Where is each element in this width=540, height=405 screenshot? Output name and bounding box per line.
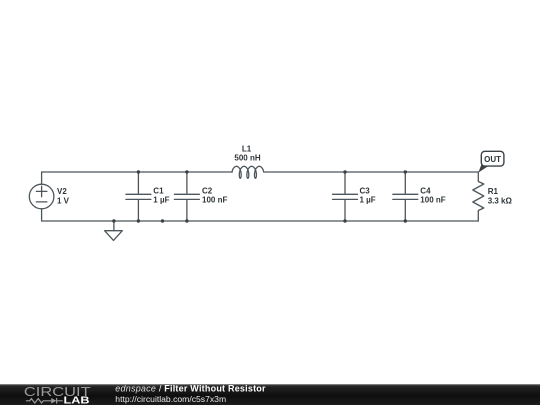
svg-text:100 nF: 100 nF (202, 196, 227, 205)
svg-text:C3: C3 (360, 186, 371, 195)
svg-text:LAB: LAB (64, 395, 90, 405)
svg-text:OUT: OUT (484, 155, 501, 164)
svg-text:C2: C2 (202, 186, 213, 195)
svg-text:V2: V2 (57, 187, 67, 196)
svg-text:L1: L1 (242, 145, 252, 154)
svg-text:C4: C4 (420, 186, 431, 195)
svg-text:1 µF: 1 µF (360, 196, 376, 205)
svg-text:ednspace / Filter Without Resi: ednspace / Filter Without Resistor (115, 384, 266, 394)
svg-text:3.3 kΩ: 3.3 kΩ (488, 196, 513, 205)
svg-text:500 nH: 500 nH (234, 154, 260, 163)
svg-text:C1: C1 (153, 186, 164, 195)
svg-text:http://circuitlab.com/c5s7x3m: http://circuitlab.com/c5s7x3m (115, 394, 226, 404)
svg-text:100 nF: 100 nF (420, 196, 445, 205)
svg-text:R1: R1 (488, 187, 499, 196)
svg-text:1 µF: 1 µF (153, 196, 169, 205)
svg-text:1 V: 1 V (57, 196, 70, 205)
